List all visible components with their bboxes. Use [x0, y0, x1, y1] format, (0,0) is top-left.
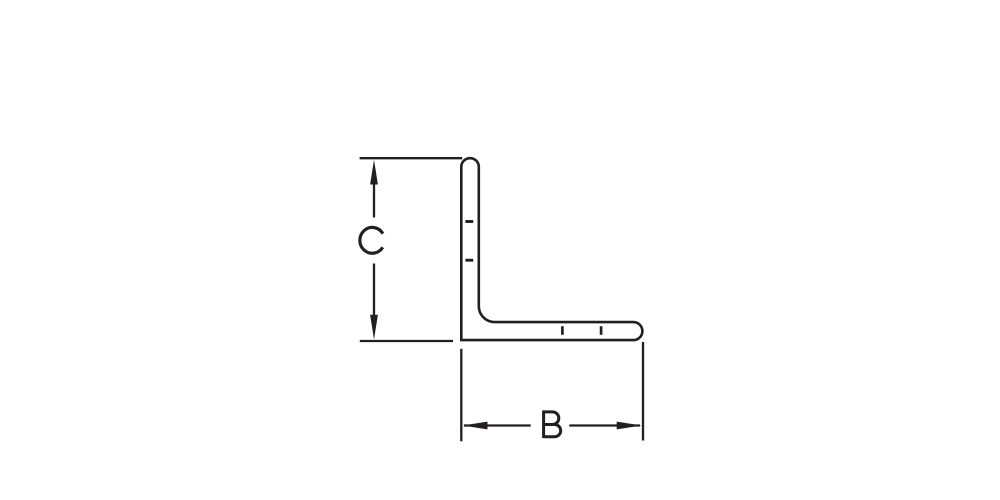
B arrow left	[463, 422, 488, 430]
tick mark vertical leg upper	[465, 220, 473, 223]
tick mark vertical leg lower	[465, 259, 473, 262]
label C	[360, 227, 383, 253]
C arrow up	[370, 160, 378, 185]
label B	[544, 410, 561, 438]
C top extension line	[360, 157, 463, 159]
B dimension line right segment	[569, 424, 640, 426]
C arrow down	[370, 315, 378, 340]
B right extension line	[642, 342, 644, 441]
C bottom extension line	[360, 340, 453, 342]
B arrow right	[617, 422, 642, 430]
B left extension line	[460, 349, 462, 442]
tick mark horizontal leg right	[600, 326, 603, 335]
C dimension line lower segment	[373, 264, 375, 328]
B dimension line left segment	[464, 424, 531, 426]
C dimension line upper segment	[373, 172, 375, 218]
tick mark horizontal leg left	[561, 326, 564, 335]
angle profile outline	[461, 158, 642, 340]
